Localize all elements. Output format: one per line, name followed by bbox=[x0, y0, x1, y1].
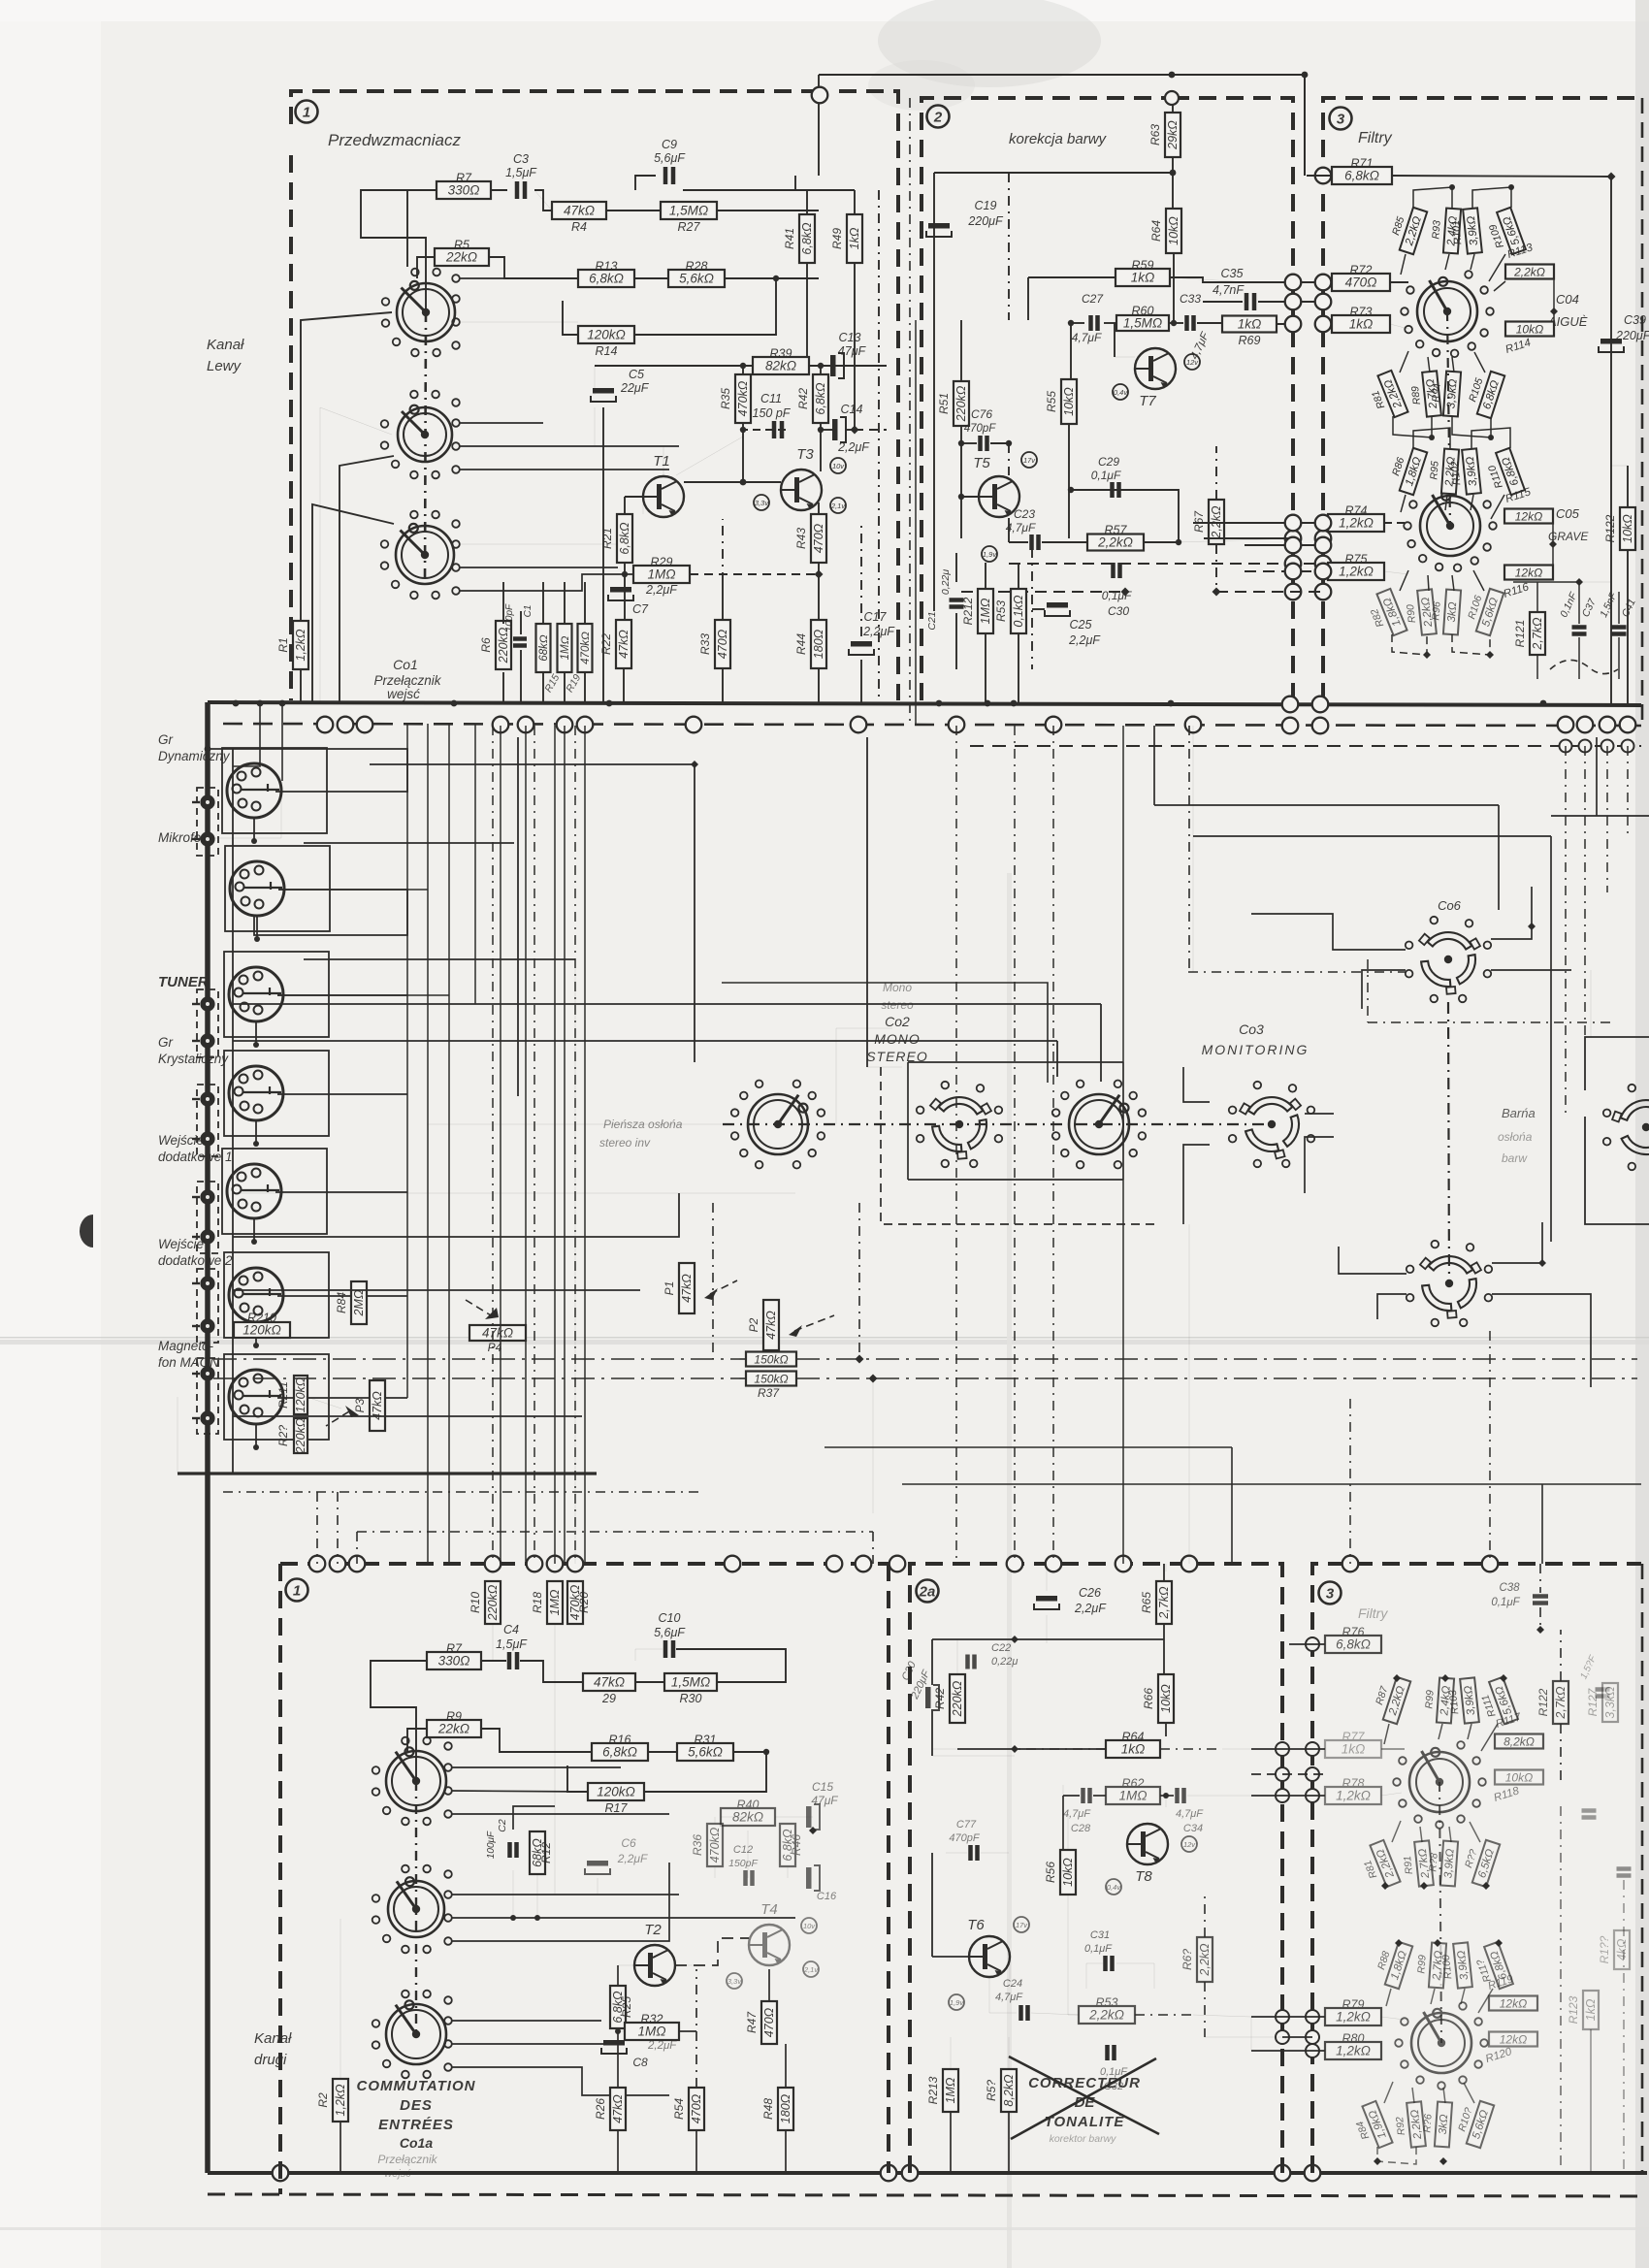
svg-text:R64: R64 bbox=[1122, 1731, 1145, 1744]
capacitor C38 0,1uF bbox=[1491, 1582, 1548, 1608]
svg-text:8,2kΩ: 8,2kΩ bbox=[1503, 1735, 1535, 1749]
svg-text:6,8kΩ: 6,8kΩ bbox=[1336, 1637, 1371, 1652]
svg-text:R29: R29 bbox=[651, 556, 673, 569]
voltage bubble T6 17v bbox=[1014, 1917, 1029, 1932]
svg-text:R122: R122 bbox=[1603, 514, 1617, 542]
svg-text:220kΩ: 220kΩ bbox=[486, 1584, 500, 1621]
lower barwa switch wires bbox=[1339, 1247, 1406, 1274]
svg-text:5,6μF: 5,6μF bbox=[654, 151, 686, 165]
svg-text:R62: R62 bbox=[1122, 1777, 1145, 1791]
svg-text:470Ω: 470Ω bbox=[1345, 275, 1377, 290]
rotary switch Co1a wafer B bbox=[372, 1865, 444, 1954]
resistor R78 faded bbox=[1325, 1777, 1381, 1805]
svg-text:6,8kΩ: 6,8kΩ bbox=[602, 1745, 637, 1760]
resistor R212 1M vertical bbox=[961, 589, 993, 633]
resistor R35 470k vertical bbox=[719, 374, 751, 423]
svg-text:3kΩ: 3kΩ bbox=[1446, 601, 1459, 623]
svg-text:R94: R94 bbox=[1430, 383, 1442, 403]
svg-text:R42: R42 bbox=[933, 1688, 947, 1709]
svg-text:Przełącznik: Przełącznik bbox=[377, 2153, 437, 2166]
resistor R31 5,6k bbox=[677, 1733, 733, 1762]
middle long wires bbox=[370, 763, 695, 765]
capacitor C27 4,7uF bbox=[1072, 292, 1105, 344]
svg-text:R46: R46 bbox=[790, 1834, 803, 1856]
svg-text:2,1v: 2,1v bbox=[830, 502, 846, 510]
resistor R2 1,2k vertical bbox=[316, 2079, 348, 2122]
capacitor C37 0,1nF bbox=[1558, 591, 1599, 634]
svg-text:Przedwzmacniacz: Przedwzmacniacz bbox=[328, 131, 461, 149]
svg-text:5,6kΩ: 5,6kΩ bbox=[679, 272, 714, 286]
capacitor C22 0,22uF bbox=[968, 1642, 1018, 1669]
svg-text:R67: R67 bbox=[1192, 510, 1206, 533]
resistor R43 470 vertical bbox=[794, 514, 826, 563]
capacitor C8 2,2uF electrolytic bbox=[601, 2040, 677, 2069]
resistor R122 10k vertical right edge bbox=[1603, 507, 1635, 550]
svg-text:R127: R127 bbox=[1586, 1687, 1600, 1716]
punch hole mark left edge bbox=[80, 1215, 93, 1247]
svg-text:R9: R9 bbox=[446, 1710, 462, 1724]
svg-text:stereo inv: stereo inv bbox=[599, 1136, 651, 1150]
svg-text:6,8kΩ: 6,8kΩ bbox=[1344, 169, 1379, 183]
svg-text:6,8kΩ: 6,8kΩ bbox=[589, 272, 624, 286]
capacitor C12 150pF bbox=[728, 1844, 758, 1886]
svg-text:Kanał: Kanał bbox=[207, 337, 244, 353]
svg-text:5,6μF: 5,6μF bbox=[654, 1626, 686, 1639]
svg-text:R92: R92 bbox=[1394, 2116, 1407, 2136]
svg-text:470pF: 470pF bbox=[949, 1832, 980, 1844]
svg-text:Gr: Gr bbox=[158, 732, 174, 747]
svg-text:3,3v: 3,3v bbox=[727, 1977, 742, 1986]
svg-text:1,2kΩ: 1,2kΩ bbox=[1336, 1789, 1371, 1803]
svg-text:R17: R17 bbox=[605, 1801, 629, 1815]
svg-text:470Ω: 470Ω bbox=[762, 2007, 776, 2037]
resistor R59 1k bbox=[1115, 259, 1170, 287]
resistor R44 180 vertical bbox=[794, 620, 826, 668]
rotary switch Co1 wafer C bbox=[381, 511, 454, 599]
svg-text:1,2kΩ: 1,2kΩ bbox=[1339, 516, 1374, 531]
svg-text:C8: C8 bbox=[632, 2056, 648, 2069]
svg-text:4,7μF: 4,7μF bbox=[1006, 521, 1036, 535]
gang link Co2 row bbox=[723, 1123, 1272, 1125]
svg-text:R54: R54 bbox=[672, 2098, 686, 2120]
resistor R79 1,2k bbox=[1325, 1998, 1381, 2026]
svg-text:22μF: 22μF bbox=[620, 381, 650, 395]
svg-text:180Ω: 180Ω bbox=[779, 2093, 792, 2123]
main horizontal bus (dashed with junction circles) bbox=[223, 724, 1641, 726]
capacitor C31 0,1uF bbox=[1084, 1929, 1113, 1971]
svg-text:C1: C1 bbox=[523, 605, 533, 618]
svg-text:120kΩ: 120kΩ bbox=[242, 1323, 281, 1338]
svg-text:2,7kΩ: 2,7kΩ bbox=[1531, 617, 1544, 651]
svg-text:22kΩ: 22kΩ bbox=[445, 250, 477, 265]
svg-text:korekcja barwy: korekcja barwy bbox=[1009, 131, 1108, 147]
resistor R48 180 vertical bbox=[761, 2088, 793, 2130]
svg-text:R210: R210 bbox=[247, 1312, 276, 1325]
capacitor C76 470pF bbox=[964, 407, 997, 451]
bottom block1 lower wiring bbox=[617, 2028, 619, 2088]
dashed rect around Co2 switches bbox=[881, 1067, 1154, 1224]
resistor R80 1,2k bbox=[1325, 2032, 1381, 2060]
resistor R9b 22k bbox=[427, 1710, 481, 1738]
co2 area top wires bbox=[722, 983, 1048, 1083]
svg-text:470Ω: 470Ω bbox=[716, 629, 729, 659]
svg-text:470kΩ: 470kΩ bbox=[580, 632, 592, 664]
rotary switch barwa lower bbox=[1406, 1241, 1492, 1326]
voltage bubble T6 1,9v bbox=[949, 1994, 964, 2010]
svg-text:C35: C35 bbox=[1221, 267, 1244, 280]
badge 2a bbox=[917, 1580, 939, 1603]
resistor R53 0,1k vertical bbox=[994, 589, 1026, 633]
svg-text:Gr: Gr bbox=[158, 1035, 174, 1050]
svg-text:C38: C38 bbox=[1499, 1582, 1520, 1594]
rotary switch C05 GRAVE bbox=[1404, 485, 1497, 571]
svg-text:R16: R16 bbox=[609, 1733, 631, 1747]
svg-text:Barńa: Barńa bbox=[1502, 1106, 1536, 1120]
transistor T7 bbox=[1135, 348, 1176, 409]
resistor R77 faded bbox=[1325, 1731, 1381, 1759]
svg-text:R2: R2 bbox=[316, 2092, 330, 2108]
svg-text:2,2μF: 2,2μF bbox=[837, 440, 870, 454]
resistor R54 470 vertical bbox=[672, 2088, 704, 2130]
svg-text:R99: R99 bbox=[1423, 1690, 1436, 1709]
svg-text:0,1μF: 0,1μF bbox=[1091, 469, 1121, 482]
svg-text:1kΩ: 1kΩ bbox=[1131, 271, 1155, 285]
rotary switch Co6 bbox=[1406, 917, 1491, 1002]
svg-text:C17: C17 bbox=[864, 610, 888, 624]
resistor R33 470 vertical bbox=[698, 620, 730, 668]
svg-text:2: 2 bbox=[933, 110, 943, 126]
capacitor C16 2,2uF bbox=[806, 1865, 837, 1902]
resistor R71 6,8k bbox=[1332, 157, 1392, 185]
svg-text:17v: 17v bbox=[1023, 456, 1036, 465]
resistor R5 22k bbox=[435, 239, 489, 267]
rows into block3 lower bbox=[1193, 522, 1328, 524]
svg-text:osłońa: osłońa bbox=[1498, 1130, 1533, 1144]
svg-text:1,5MΩ: 1,5MΩ bbox=[671, 1675, 710, 1690]
svg-text:10kΩ: 10kΩ bbox=[1159, 1684, 1173, 1713]
block 2a dashed border (bottom middle) bbox=[910, 1564, 1282, 2173]
bottom block1 wiring upper bbox=[371, 1661, 427, 1781]
svg-text:29: 29 bbox=[601, 1692, 616, 1705]
resistor R212b 220k vertical bbox=[933, 1674, 965, 1723]
block 2 dashed border (korekcja barwy) bbox=[921, 98, 1293, 700]
resistor R28 5,6k bbox=[668, 260, 725, 288]
svg-text:R64: R64 bbox=[1149, 220, 1163, 242]
resistor R42 6,8k vertical bbox=[796, 374, 828, 423]
left nest verticals from bus to bottom block bbox=[406, 724, 408, 1398]
DIN connector TUNER bbox=[229, 967, 283, 1021]
faded right column bottom3 bbox=[1567, 1991, 1599, 2029]
svg-text:C10: C10 bbox=[659, 1611, 681, 1625]
svg-text:R2?: R2? bbox=[276, 1425, 290, 1446]
svg-text:R51: R51 bbox=[937, 393, 951, 414]
svg-text:R4: R4 bbox=[571, 220, 587, 234]
svg-text:C34: C34 bbox=[1183, 1823, 1203, 1834]
svg-text:C12: C12 bbox=[733, 1844, 753, 1856]
svg-text:C14: C14 bbox=[841, 403, 863, 416]
resistor R26 47k vertical bbox=[594, 2088, 626, 2130]
resistor R63 vertical bbox=[1148, 113, 1180, 157]
svg-text:R?8: R?8 bbox=[1427, 1853, 1439, 1872]
capacitor C30 0,1uF bbox=[1102, 563, 1132, 618]
svg-text:22kΩ: 22kΩ bbox=[437, 1722, 469, 1736]
svg-text:3: 3 bbox=[1326, 1586, 1335, 1603]
svg-text:2MΩ: 2MΩ bbox=[352, 1289, 366, 1316]
capacitor C33 4,7uF bbox=[1180, 292, 1212, 362]
svg-text:R25: R25 bbox=[620, 1996, 633, 2018]
svg-text:1MΩ: 1MΩ bbox=[944, 2077, 957, 2103]
svg-text:470kΩ: 470kΩ bbox=[708, 1827, 722, 1863]
svg-text:C28: C28 bbox=[1071, 1823, 1091, 1834]
resistor R14 120k bbox=[578, 326, 634, 343]
svg-text:TUNER: TUNER bbox=[158, 974, 209, 990]
svg-text:C30: C30 bbox=[1108, 604, 1129, 618]
svg-text:R99: R99 bbox=[1415, 1955, 1428, 1974]
capacitor C25 2,2uF electrolytic bbox=[1045, 602, 1101, 647]
capacitor C24 4,7uF bbox=[995, 1978, 1028, 2021]
svg-text:4kΩ: 4kΩ bbox=[1615, 1938, 1629, 1960]
secondary dashed bus right bbox=[970, 745, 1641, 747]
rotary switch C04a (bottom) bbox=[1393, 1741, 1486, 1829]
svg-text:47μF: 47μF bbox=[838, 344, 867, 358]
svg-text:C13: C13 bbox=[839, 331, 861, 344]
DIN connector Magneto- fon MAGN bbox=[229, 1370, 283, 1424]
svg-text:T7: T7 bbox=[1139, 393, 1156, 409]
svg-text:12v: 12v bbox=[1183, 1840, 1196, 1849]
svg-text:Co6: Co6 bbox=[1438, 898, 1462, 913]
svg-text:2,2μF: 2,2μF bbox=[647, 2040, 677, 2052]
bottom dashed border line bbox=[208, 2194, 1641, 2196]
gang link bottom filters bbox=[1439, 1782, 1441, 2043]
resistor R55 10k vertical bbox=[1045, 379, 1077, 424]
vertical feeders from top bus to bottom block bbox=[492, 726, 494, 1564]
svg-text:R5: R5 bbox=[454, 239, 469, 252]
gang link C04-C05 bbox=[1447, 311, 1450, 526]
rotary switch stereo C bbox=[1052, 1081, 1146, 1169]
svg-text:47kΩ: 47kΩ bbox=[617, 630, 630, 659]
svg-text:R90: R90 bbox=[1405, 603, 1418, 624]
svg-text:R212: R212 bbox=[961, 597, 975, 625]
150k row resistors R36/R37 bbox=[746, 1352, 796, 1367]
capacitor C?? 470pF bbox=[949, 1819, 980, 1861]
svg-text:3,3v: 3,3v bbox=[755, 499, 769, 507]
svg-text:1kΩ: 1kΩ bbox=[1342, 1742, 1366, 1757]
svg-text:0,1μF: 0,1μF bbox=[1084, 1943, 1113, 1955]
svg-text:stereo: stereo bbox=[881, 998, 914, 1012]
svg-text:10kΩ: 10kΩ bbox=[1516, 323, 1543, 337]
Co1 gang link bbox=[425, 312, 426, 582]
resistor R117 8,2k bbox=[1495, 1734, 1543, 1749]
resistor R73 1k bbox=[1332, 306, 1390, 334]
svg-text:T4: T4 bbox=[760, 1901, 778, 1918]
bottom filter star below C05a bbox=[1349, 2101, 1393, 2154]
resistor R30 1,5M bbox=[664, 1673, 717, 1691]
svg-text:R56: R56 bbox=[1044, 1862, 1057, 1883]
svg-text:R1: R1 bbox=[276, 637, 290, 652]
svg-text:0,4v: 0,4v bbox=[1107, 1883, 1121, 1892]
svg-text:R121: R121 bbox=[1513, 620, 1527, 648]
capacitor C34 4,7uF bbox=[1176, 1788, 1204, 1834]
capacitor C29 0,1uF bbox=[1091, 455, 1121, 498]
svg-text:R93: R93 bbox=[1430, 220, 1442, 240]
resistor R32 1M bbox=[625, 2013, 679, 2041]
svg-text:180Ω: 180Ω bbox=[812, 629, 825, 659]
svg-text:1,2kΩ: 1,2kΩ bbox=[1339, 565, 1374, 579]
monitoring sub wires bbox=[1183, 1067, 1210, 1102]
svg-text:6,8kΩ: 6,8kΩ bbox=[814, 382, 827, 415]
svg-text:6,8kΩ: 6,8kΩ bbox=[800, 222, 814, 255]
svg-text:T8: T8 bbox=[1135, 1868, 1152, 1885]
dashed socket frames bbox=[197, 788, 218, 856]
svg-text:0,22μ: 0,22μ bbox=[940, 569, 952, 595]
svg-text:TONALITÉ: TONALITÉ bbox=[1045, 2114, 1125, 2130]
DIN connector Gr Krystaliczny bbox=[229, 1066, 283, 1120]
svg-text:10kΩ: 10kΩ bbox=[1061, 1858, 1075, 1887]
svg-text:C15: C15 bbox=[812, 1780, 833, 1794]
svg-text:R48: R48 bbox=[761, 2098, 775, 2120]
resistor R64b 1k bbox=[1106, 1731, 1160, 1759]
svg-text:R27: R27 bbox=[678, 220, 701, 234]
resistor R57 2,2k bbox=[1087, 524, 1144, 551]
capacitor C3 1,5uF bbox=[505, 152, 537, 199]
svg-text:4,7μF: 4,7μF bbox=[1063, 1808, 1091, 1820]
voltage bubble 3,3V bbox=[754, 495, 769, 510]
svg-text:wejsć: wejsć bbox=[387, 687, 420, 701]
svg-text:R55: R55 bbox=[1045, 391, 1058, 412]
wafer C pins and wires bbox=[452, 520, 460, 528]
potentiometer P4 47k bbox=[469, 1325, 526, 1341]
svg-text:R39: R39 bbox=[770, 347, 792, 361]
svg-text:0,1μF: 0,1μF bbox=[1491, 1597, 1520, 1608]
svg-text:12kΩ: 12kΩ bbox=[1500, 1997, 1527, 2011]
rotary switch Co1 wafer A bbox=[382, 269, 455, 357]
svg-text:4,7μF: 4,7μF bbox=[1072, 331, 1102, 344]
resistor R51 220k vertical bbox=[937, 381, 969, 426]
svg-text:R26: R26 bbox=[594, 2098, 607, 2120]
rotary switch Co2 B bbox=[917, 1082, 1002, 1167]
DIN connector Wej&#347;cie dodatkowe 1 bbox=[227, 1164, 281, 1218]
svg-text:1MΩ: 1MΩ bbox=[548, 1589, 562, 1615]
DIN connector Wej&#347;cie dodatkowe 2 bbox=[229, 1268, 283, 1322]
DIN connector Mikrofon bbox=[230, 861, 284, 916]
svg-text:1: 1 bbox=[303, 105, 310, 121]
svg-text:2,7kΩ: 2,7kΩ bbox=[1157, 1586, 1171, 1620]
svg-text:82kΩ: 82kΩ bbox=[765, 359, 796, 373]
svg-text:470Ω: 470Ω bbox=[812, 523, 825, 553]
right page edge dashed border bottom bbox=[1641, 1564, 1644, 2173]
resistor R75 1,2k bbox=[1328, 553, 1384, 581]
bottom filter star above C05a bbox=[1372, 1937, 1412, 1989]
capacitor C11 150pF bbox=[753, 392, 792, 438]
capacitor C20 220uF electrolytic bbox=[900, 1659, 939, 1710]
svg-text:C27: C27 bbox=[1082, 292, 1104, 306]
svg-text:220kΩ: 220kΩ bbox=[951, 1680, 964, 1717]
resistor R119 12k bbox=[1489, 1996, 1537, 2011]
block 3a dashed border (bottom right) bbox=[1312, 1564, 1641, 2173]
badge 3a bbox=[1319, 1582, 1342, 1604]
svg-text:R211: R211 bbox=[276, 1381, 290, 1409]
filter star resistors below C05 bbox=[1364, 589, 1407, 641]
svg-text:ENTRÉES: ENTRÉES bbox=[378, 2117, 454, 2133]
svg-text:R44: R44 bbox=[794, 633, 808, 655]
svg-text:2,2kΩ: 2,2kΩ bbox=[1513, 266, 1545, 279]
svg-text:T6: T6 bbox=[967, 1917, 985, 1933]
svg-text:C24: C24 bbox=[1003, 1978, 1022, 1990]
bottom filter star below C04a bbox=[1357, 1840, 1401, 1893]
svg-text:R6?: R6? bbox=[1180, 1949, 1194, 1970]
svg-text:C31: C31 bbox=[1090, 1929, 1110, 1941]
svg-text:T1: T1 bbox=[653, 453, 670, 470]
svg-text:R32: R32 bbox=[641, 2013, 663, 2026]
svg-text:47kΩ: 47kΩ bbox=[611, 2094, 625, 2123]
svg-text:470pF: 470pF bbox=[964, 423, 997, 435]
svg-text:C22: C22 bbox=[991, 1642, 1011, 1654]
svg-text:R91: R91 bbox=[1402, 1855, 1415, 1874]
resistor R69 1k bbox=[1222, 316, 1277, 333]
svg-text:12v: 12v bbox=[1186, 358, 1199, 367]
capacitor C6 2,2uF electrolytic bbox=[585, 1836, 648, 1874]
resistor R60 1,5M bbox=[1116, 305, 1169, 332]
svg-text:R65: R65 bbox=[1140, 1592, 1153, 1613]
svg-text:R76: R76 bbox=[1342, 1626, 1365, 1639]
svg-text:R18: R18 bbox=[531, 1592, 544, 1613]
svg-text:120kΩ: 120kΩ bbox=[294, 1377, 307, 1412]
svg-text:T3: T3 bbox=[796, 446, 814, 463]
svg-text:R30: R30 bbox=[680, 1692, 702, 1705]
svg-text:C2: C2 bbox=[497, 1819, 508, 1832]
svg-text:P3: P3 bbox=[353, 1398, 367, 1412]
block 3 dashed border (Filtry) bbox=[1323, 98, 1641, 700]
svg-text:R75: R75 bbox=[1345, 553, 1368, 567]
wafer B pins and wires bbox=[452, 399, 460, 406]
resistor R46 6,8k vertical bbox=[780, 1824, 803, 1866]
svg-text:T2: T2 bbox=[644, 1922, 662, 1938]
filter star resistors below C04 bbox=[1365, 371, 1408, 423]
middle right extra rows bbox=[824, 1446, 1232, 1448]
svg-text:DES: DES bbox=[400, 2097, 433, 2114]
svg-text:wejsć: wejsć bbox=[384, 2168, 411, 2180]
svg-text:R77: R77 bbox=[1342, 1731, 1366, 1744]
resistor R53b 2,2k bbox=[1079, 1996, 1135, 2025]
right middle rectangles bbox=[1585, 1037, 1649, 1224]
svg-text:R10: R10 bbox=[469, 1592, 482, 1613]
svg-text:C33: C33 bbox=[1180, 292, 1201, 306]
svg-text:Przełącznik: Przełącznik bbox=[373, 673, 441, 688]
svg-text:C04: C04 bbox=[1556, 292, 1579, 307]
rotary switch right edge (partial) bbox=[1603, 1085, 1649, 1170]
wires top block1 upper bbox=[361, 190, 436, 312]
capacitor C17 2,2uF bbox=[849, 610, 895, 655]
resistor R51b 8,2k vertical bbox=[985, 2069, 1017, 2112]
transistor T8 bbox=[1127, 1824, 1168, 1885]
svg-text:1,2kΩ: 1,2kΩ bbox=[334, 2084, 347, 2117]
transistor T6 bbox=[967, 1917, 1010, 1977]
svg-text:Co2: Co2 bbox=[885, 1014, 910, 1029]
jack sockets (filled) on left rail bbox=[200, 794, 214, 809]
svg-text:3: 3 bbox=[1337, 112, 1345, 128]
svg-text:R73: R73 bbox=[1350, 306, 1373, 319]
svg-text:2,1v: 2,1v bbox=[803, 1965, 819, 1974]
svg-text:Co1: Co1 bbox=[393, 657, 418, 672]
resistor R56 10k vertical bbox=[1044, 1850, 1076, 1895]
svg-text:120kΩ: 120kΩ bbox=[597, 1785, 635, 1799]
svg-text:R74: R74 bbox=[1345, 504, 1368, 518]
resistor R210 120k bbox=[234, 1312, 290, 1339]
block2 left rail bbox=[933, 173, 935, 611]
pins wires C04 left bbox=[1405, 281, 1408, 283]
svg-text:47kΩ: 47kΩ bbox=[764, 1311, 778, 1340]
svg-text:10v: 10v bbox=[803, 1922, 816, 1930]
